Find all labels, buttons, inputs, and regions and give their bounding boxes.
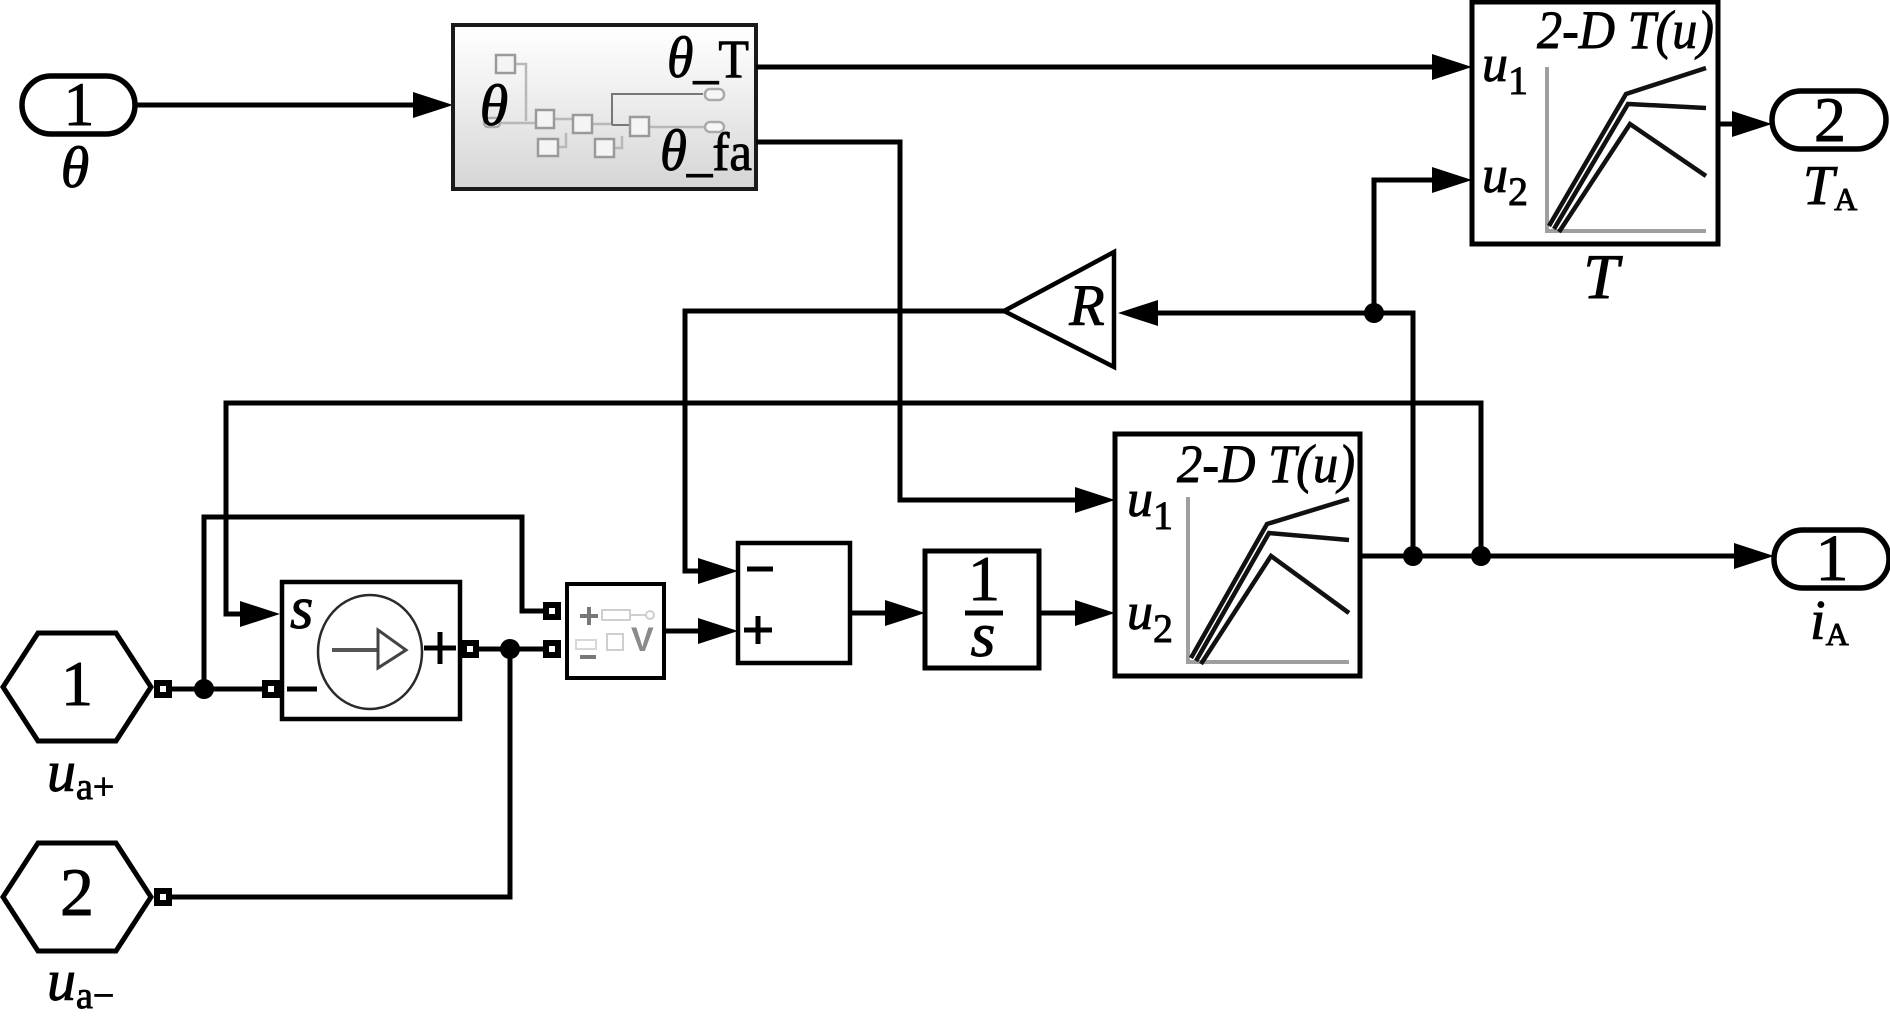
sum block [738,543,850,663]
subsystem thumbnail dark wires [612,94,703,125]
wire lookup iA output to outport 1 [1360,543,1774,569]
wire R output to sum minus [685,311,1004,584]
port square hex1 [154,680,172,698]
node junction iA 2 [1471,546,1491,566]
hexagon port 2 (ua-) [3,843,151,951]
outport 2 oval (TA) [1772,84,1886,155]
wire iA feedback to source block [226,403,1481,627]
integrator block 1/s [925,543,1039,670]
wire junction corner down to iA line [1374,313,1413,556]
plus sign [424,646,456,651]
wire into R from junction [1118,300,1374,326]
svg-text:s: s [290,575,313,641]
axes [1545,67,1549,231]
svg-text:R: R [1068,273,1104,338]
svg-text:θ: θ [61,135,90,200]
wire integrator to lookup iA u2 [1039,600,1115,626]
port square source plus [461,640,479,658]
voltage measurement block [567,584,664,678]
subsystem thumbnail connectors [484,89,724,132]
source circle [318,595,422,709]
svg-text:θ: θ [480,73,509,138]
wire theta_T to lookup T u1 [756,54,1472,80]
svg-text:1: 1 [61,648,93,719]
inport 1 (theta) oval [22,72,135,139]
subsystem thumbnail squares [496,55,649,157]
svg-text:2-D T(u): 2-D T(u) [1537,0,1714,60]
wire sum to integrator [850,600,925,626]
source arrow [332,648,378,652]
axes [1186,497,1190,662]
svg-text:1: 1 [1816,522,1849,595]
lookup table T block [1472,0,1718,244]
wire hex1 to source minus [172,687,262,692]
svg-text:V: V [631,621,654,659]
port square source minus [262,680,280,698]
wire hex2 to source plus node [172,649,510,897]
port square V minus [543,640,561,658]
wire hex1 up over to V plus [204,517,543,689]
svg-text:2: 2 [60,854,94,930]
hexagon port 1 (ua+) [3,633,151,741]
svg-text:θ_T: θ_T [667,25,749,90]
port square V plus [543,602,561,620]
wire junction up to lookup T u2 [1374,167,1472,313]
gain R triangle [1004,252,1114,367]
node junction hex1 wire [194,679,214,699]
node junction iA 1 [1403,546,1423,566]
wire lookup T to outport 2 [1718,111,1772,137]
wire V out to sum plus [664,618,738,644]
lookup table iA block [1115,434,1360,676]
curves [1549,68,1706,226]
svg-text:2: 2 [1814,84,1846,155]
svg-text:T: T [1583,241,1623,312]
svg-text:2-D T(u): 2-D T(u) [1177,434,1355,494]
minus sign [287,687,317,692]
port square hex2 [154,888,172,906]
svg-text:s: s [971,599,996,670]
outport 1 oval (iA) [1774,522,1889,595]
subsystem thumbnail wires [490,64,705,148]
wire inport to subsystem [135,92,453,118]
node junction source plus [500,639,520,659]
subsystem block [453,25,756,189]
svg-text:1: 1 [64,72,95,139]
controlled source block S [282,575,460,719]
wire theta_fa to lookup iA u1 [756,142,1115,513]
wire source plus to V minus [479,647,543,652]
svg-text:θ_fa: θ_fa [660,118,752,183]
curves [1191,499,1349,658]
node junction on R wire [1364,303,1384,323]
